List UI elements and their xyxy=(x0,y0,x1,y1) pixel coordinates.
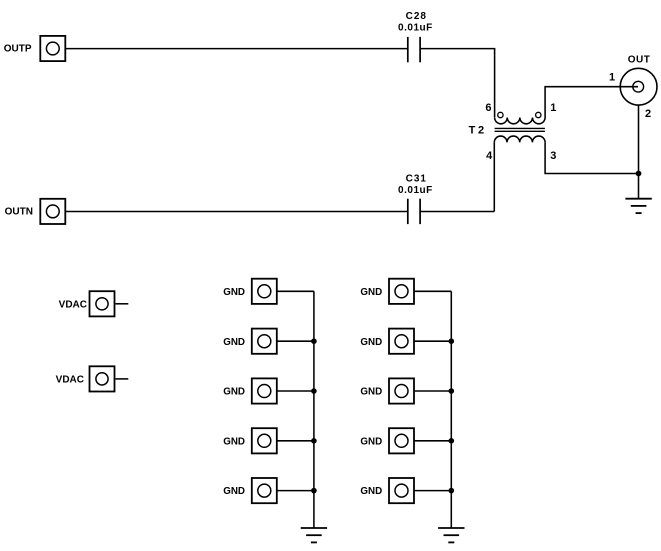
svg-text:C31: C31 xyxy=(406,174,427,185)
svg-text:4: 4 xyxy=(486,150,493,162)
svg-text:GND: GND xyxy=(223,486,245,497)
svg-text:2: 2 xyxy=(645,108,651,120)
svg-text:GND: GND xyxy=(360,486,382,497)
svg-text:0.01uF: 0.01uF xyxy=(398,23,433,34)
svg-text:VDAC: VDAC xyxy=(56,375,84,386)
svg-text:3: 3 xyxy=(550,150,556,162)
svg-text:GND: GND xyxy=(360,287,382,298)
svg-text:GND: GND xyxy=(223,387,245,398)
svg-text:GND: GND xyxy=(223,337,245,348)
svg-text:GND: GND xyxy=(360,337,382,348)
svg-text:GND: GND xyxy=(360,436,382,447)
svg-text:OUT: OUT xyxy=(628,54,651,65)
svg-text:C28: C28 xyxy=(406,11,427,22)
svg-text:OUTN: OUTN xyxy=(5,206,33,217)
svg-text:GND: GND xyxy=(360,387,382,398)
svg-text:VDAC: VDAC xyxy=(59,299,87,310)
svg-text:0.01uF: 0.01uF xyxy=(398,185,433,196)
svg-text:GND: GND xyxy=(223,287,245,298)
svg-text:1: 1 xyxy=(550,102,556,114)
svg-text:T2: T2 xyxy=(469,124,487,136)
svg-text:OUTP: OUTP xyxy=(4,44,32,55)
svg-text:1: 1 xyxy=(609,72,615,84)
svg-text:6: 6 xyxy=(485,102,491,114)
svg-text:GND: GND xyxy=(223,436,245,447)
